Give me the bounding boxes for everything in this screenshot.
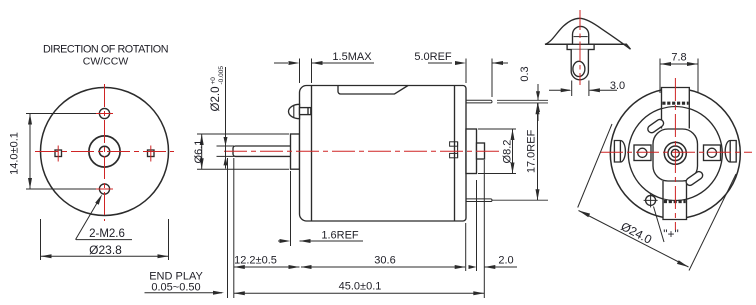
svg-text:Ø6.1: Ø6.1 bbox=[193, 140, 205, 164]
motor front face outer circle (Ø23.8) bbox=[41, 88, 169, 216]
inner ring arc crossing bottom tab bbox=[663, 199, 687, 201]
svg-text:-0.005: -0.005 bbox=[218, 66, 225, 85]
dimension 3.0 bbox=[572, 81, 589, 97]
svg-text:+0: +0 bbox=[210, 77, 217, 85]
endcap inner ring bbox=[628, 107, 722, 201]
front endbell inner line (1.5MAX) bbox=[311, 86, 313, 222]
dimension 5.0REF bbox=[466, 59, 492, 98]
svg-text:12.2±0.5: 12.2±0.5 bbox=[234, 255, 277, 267]
front bearing boss (Ø6.1 x 1.6REF) bbox=[291, 134, 300, 169]
arrowhead 14.0 top bbox=[28, 114, 32, 125]
dimension 7.8 bbox=[660, 59, 698, 94]
positive terminal marker circle with cross bbox=[646, 195, 656, 205]
shaft circle (Ø2.0) bbox=[99, 146, 109, 156]
right crimp D-tab bbox=[725, 141, 736, 163]
dimension Ø23.8 line bbox=[41, 255, 169, 257]
screw hole top (M2.6) bbox=[99, 108, 109, 118]
red center lines of rear view bbox=[600, 151, 752, 153]
dimension 2.0 (bearing tip) bbox=[477, 160, 485, 298]
left crimp D-tab bbox=[614, 141, 625, 163]
rear bearing tip boss (2.0) bbox=[477, 143, 485, 159]
front bearing boss circle (Ø6.1) bbox=[89, 136, 120, 167]
dimension 12.2±0.5 bbox=[228, 158, 234, 298]
left side tab square bbox=[55, 150, 62, 157]
svg-text:17.0REF: 17.0REF bbox=[526, 129, 538, 173]
svg-text:CW/CCW: CW/CCW bbox=[83, 56, 129, 68]
dimension Ø8.2 bbox=[478, 129, 516, 174]
right screw hole bbox=[707, 148, 716, 157]
arrowhead 2-M2.6 leader bbox=[95, 194, 102, 205]
inner ring arc crossing top tab bbox=[662, 107, 690, 109]
top terminal tab bbox=[662, 88, 690, 129]
rear endcap outer circle (Ø24.0) bbox=[610, 89, 740, 219]
arrowhead Ø23.8 left bbox=[41, 254, 52, 258]
dimension Ø24.0 tangent extension left bbox=[578, 124, 612, 208]
dimension 0.3 (terminal thickness) bbox=[497, 100, 548, 103]
svg-text:Ø2.0: Ø2.0 bbox=[210, 87, 222, 112]
top tab crimp hatch bbox=[662, 102, 688, 105]
svg-text:2-M2.6: 2-M2.6 bbox=[89, 228, 125, 240]
dimension Ø24.0 line with arrows bbox=[579, 211, 689, 268]
screw hole bottom (M2.6) bbox=[99, 184, 109, 194]
red center line of terminal bbox=[579, 10, 581, 85]
dimension 45.0±0.1 bbox=[234, 292, 484, 294]
terminal shoulder bbox=[567, 44, 594, 49]
END PLAY leader line with arrow bbox=[145, 292, 223, 294]
dimension 17.0REF bbox=[492, 199, 548, 201]
svg-text:7.8: 7.8 bbox=[671, 52, 686, 64]
bottom terminal tab bbox=[663, 181, 687, 220]
bottom tab crimp hatch bbox=[664, 200, 686, 203]
dimension Ø6.1 bbox=[197, 134, 289, 169]
dimension 30.6 bbox=[465, 223, 467, 271]
svg-text:DIRECTION OF ROTATION: DIRECTION OF ROTATION bbox=[43, 44, 168, 56]
dimension 14.0±0.1 line bbox=[29, 114, 31, 190]
bearing hub (rounded square) bbox=[653, 129, 698, 181]
svg-text:Ø8.2: Ø8.2 bbox=[502, 140, 514, 164]
svg-text:5.0REF: 5.0REF bbox=[414, 51, 452, 63]
motor terminal bottom (side view) bbox=[466, 199, 492, 202]
leader 2-M2.6 bbox=[76, 199, 100, 240]
red center lines of front view bbox=[35, 84, 174, 221]
left screw pocket bbox=[634, 145, 651, 161]
motor terminal top (side view) bbox=[466, 100, 492, 103]
svg-text:30.6: 30.6 bbox=[374, 255, 395, 267]
SE vent slot bbox=[685, 170, 704, 187]
brush rivet dome bbox=[573, 26, 589, 44]
stamped recess on top of can bbox=[338, 86, 408, 95]
right screw pocket bbox=[704, 145, 721, 161]
dimension 14.0±0.1 extension lines bbox=[26, 114, 98, 190]
oval hole in terminal bbox=[573, 61, 585, 76]
NW vent slot bbox=[646, 118, 665, 134]
rear endbell inner line bbox=[454, 86, 456, 222]
rear endcap bearing boss (Ø8.2) bbox=[466, 129, 477, 174]
svg-text:2.0: 2.0 bbox=[498, 255, 513, 267]
svg-text:14.0±0.1: 14.0±0.1 bbox=[9, 132, 21, 175]
svg-text:1.5MAX: 1.5MAX bbox=[332, 51, 372, 63]
dimension 1.6REF bbox=[290, 171, 292, 246]
brush retainer clip (inside can, rear) bbox=[450, 142, 458, 146]
leader to "+" label bbox=[654, 207, 665, 243]
arrowhead Ø23.8 right bbox=[158, 254, 169, 258]
svg-text:Ø23.8: Ø23.8 bbox=[89, 243, 122, 257]
svg-text:Ø24.0: Ø24.0 bbox=[619, 219, 655, 247]
center bearing circles bbox=[664, 142, 686, 164]
svg-text:0.05~0.50: 0.05~0.50 bbox=[151, 282, 200, 294]
dimension Ø23.8 extension lines bbox=[41, 219, 169, 260]
svg-text:1.6REF: 1.6REF bbox=[321, 230, 359, 242]
terminal shank with rounded end bbox=[571, 50, 588, 80]
front terminal rivet body bbox=[300, 108, 311, 115]
svg-text:3.0: 3.0 bbox=[610, 80, 625, 92]
dimension Ø24.0 tangent extension right bbox=[689, 174, 736, 271]
dimension 1.5MAX bbox=[300, 59, 312, 84]
motor can body bbox=[300, 86, 467, 222]
hat base line bbox=[545, 43, 627, 45]
svg-text:"+": "+" bbox=[663, 227, 679, 241]
right side tab square bbox=[148, 150, 155, 157]
arrowhead 14.0 bottom bbox=[28, 178, 32, 189]
terminal cap side view: rubber boot hat bbox=[545, 18, 631, 49]
red center line of side view bbox=[224, 150, 500, 152]
left screw hole bbox=[638, 148, 647, 157]
svg-text:0.3: 0.3 bbox=[519, 66, 531, 81]
svg-text:45.0±0.1: 45.0±0.1 bbox=[339, 281, 382, 293]
front terminal rivet dome bbox=[289, 104, 300, 118]
motor shaft bbox=[233, 146, 291, 156]
dimension Ø2.0 +0 -0.005 bbox=[217, 146, 235, 156]
